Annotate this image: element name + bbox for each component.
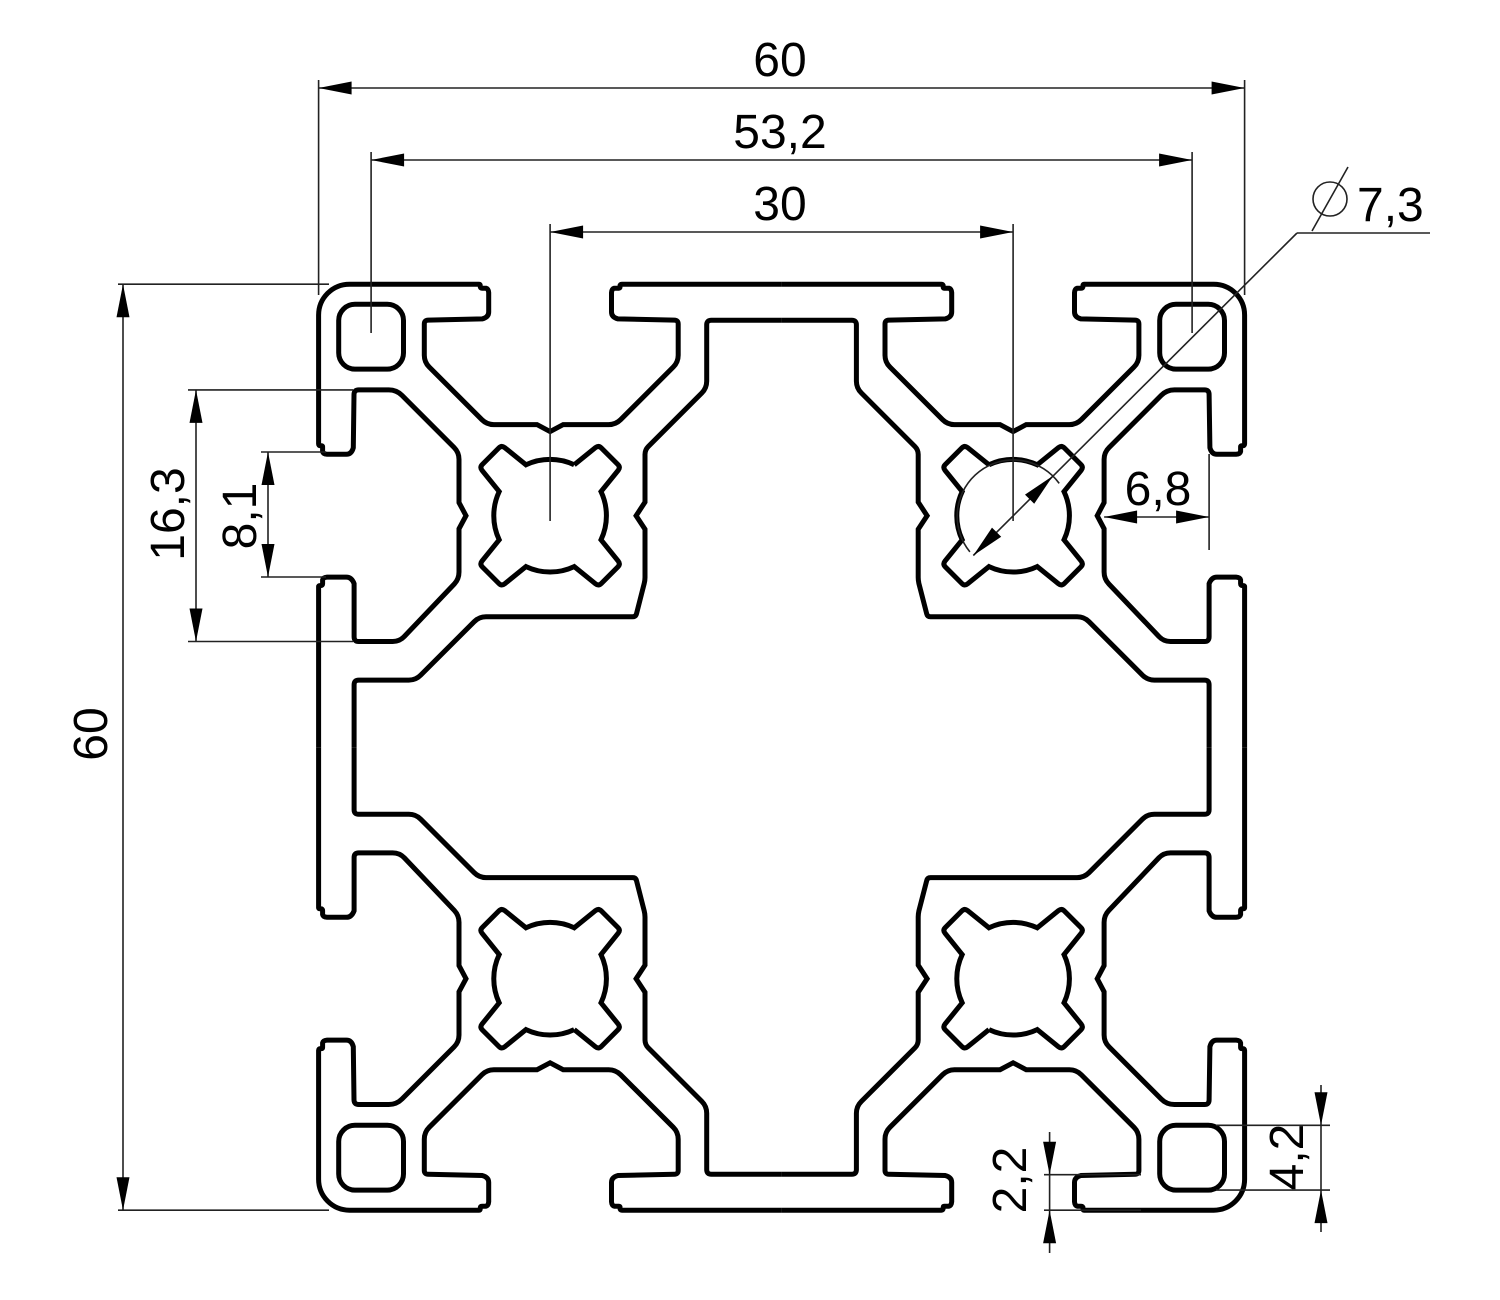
core bore with X-slots (top-right) [944, 446, 1082, 584]
profile outer contour with T-slots (bottom-right quadrant) [782, 747, 1245, 1210]
corner screw hole (bottom-right) [1160, 1125, 1225, 1190]
svg-text:6,8: 6,8 [1125, 463, 1192, 516]
central cavity wall (top-right quadrant) [782, 320, 1210, 747]
dimension 53,2 (corner hole spacing) [371, 106, 1192, 333]
central cavity wall (top-left quadrant) [354, 320, 781, 747]
corner screw hole (top-right) [1160, 304, 1225, 369]
dimension 60 (overall height, left) [65, 284, 329, 1210]
dimension 60 (overall width, top) [319, 34, 1245, 295]
core bore with X-slots (top-left) [481, 446, 619, 584]
central cavity wall (bottom-right quadrant) [782, 747, 1210, 1174]
profile outer contour with T-slots (bottom-left quadrant) [319, 747, 782, 1210]
svg-text:60: 60 [753, 34, 806, 87]
dimension diameter 7,3 (core bore) with leader [957, 167, 1430, 556]
svg-text:30: 30 [753, 178, 806, 231]
dimension 4,2 (corner hole size) [1216, 1085, 1330, 1232]
dimension 6,8 (slot depth to wall) [1104, 454, 1209, 550]
core bore with X-slots (bottom-right) [944, 909, 1082, 1047]
profile outer contour with T-slots (top-left quadrant) [319, 284, 782, 747]
svg-text:4,2: 4,2 [1261, 1124, 1314, 1191]
svg-text:60: 60 [65, 707, 118, 760]
profile outer contour with T-slots (top-right quadrant) [782, 284, 1245, 747]
central cavity wall (bottom-left quadrant) [354, 747, 781, 1174]
dimension 8,1 (T-slot opening width) [214, 452, 326, 577]
aluminium profile 60x60 cross-section [319, 284, 1245, 1210]
svg-text:8,1: 8,1 [214, 483, 267, 550]
dimension 30 (core bore spacing) [550, 178, 1013, 521]
svg-text:2,2: 2,2 [984, 1147, 1037, 1214]
dimension 16,3 (T-slot inner width) [142, 390, 353, 642]
corner screw hole (top-left) [339, 304, 404, 369]
dimension 2,2 (wall thickness) [984, 1132, 1141, 1253]
svg-text:53,2: 53,2 [733, 106, 826, 159]
corner screw hole (bottom-left) [339, 1125, 404, 1190]
core bore with X-slots (bottom-left) [481, 909, 619, 1047]
svg-text:16,3: 16,3 [142, 467, 195, 560]
svg-text:7,3: 7,3 [1357, 179, 1424, 232]
